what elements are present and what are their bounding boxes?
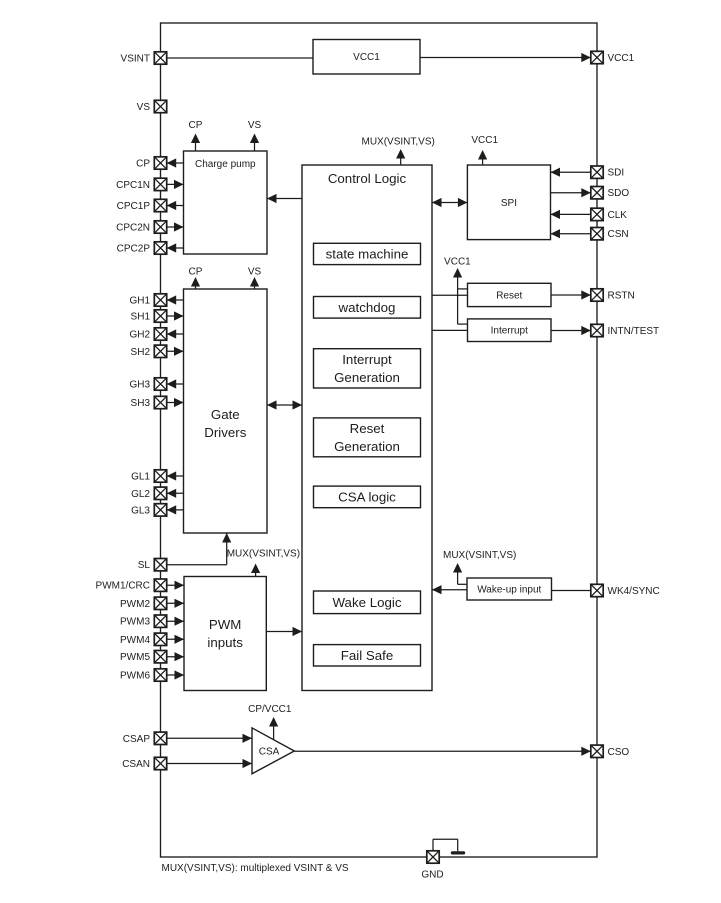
label CP/VCC1 above CSA — [248, 704, 292, 715]
svg-text:INTN/TEST: INTN/TEST — [608, 326, 660, 337]
block SPI — [467, 165, 550, 240]
svg-text:CSN: CSN — [608, 229, 629, 240]
svg-text:Reset: Reset — [496, 291, 522, 302]
pin PWM5 — [120, 651, 167, 664]
svg-text:MUX(VSINT,VS): MUX(VSINT,VS) — [443, 550, 516, 561]
svg-text:GND: GND — [421, 870, 443, 881]
wire PWM4 pin to PWM inputs — [167, 635, 184, 644]
block watchdog — [314, 297, 421, 319]
svg-text:SL: SL — [138, 560, 151, 571]
svg-text:VS: VS — [248, 120, 262, 131]
block Interrupt Generation — [314, 349, 421, 388]
wire CPC2N pin to Charge pump — [167, 222, 184, 231]
svg-text:VSINT: VSINT — [121, 54, 150, 65]
label CP above Charge pump — [189, 120, 203, 131]
svg-text:VS: VS — [137, 102, 151, 113]
svg-text:Wake-up input: Wake-up input — [477, 585, 541, 596]
pin CPC1P — [117, 199, 167, 212]
svg-text:CPC2P: CPC2P — [117, 244, 151, 255]
pin VCC1 — [591, 51, 635, 64]
wire Gate Drivers to GH2 pin — [167, 329, 184, 338]
svg-text:PWM4: PWM4 — [120, 635, 150, 646]
pin WK4/SYNC — [591, 584, 660, 597]
svg-text:CSA: CSA — [259, 746, 280, 757]
wire VCC1 rail to Reset and Interrupt blocks — [453, 268, 468, 324]
wire Interrupt block to INTN/TEST pin with arrow — [551, 326, 591, 335]
pin SL — [138, 559, 167, 572]
wire Gate Drivers to GL2 pin — [167, 489, 184, 498]
block Fail Safe — [314, 645, 421, 666]
wire SDI pin to SPI — [551, 168, 591, 177]
wire CSN pin to SPI — [551, 229, 591, 238]
arrow VS supply out of Gate Drivers — [250, 277, 259, 289]
svg-text:SH1: SH1 — [131, 312, 151, 323]
svg-text:MUX(VSINT,VS): multiplexed VSI: MUX(VSINT,VS): multiplexed VSINT & VS — [162, 863, 349, 874]
pin GL2 — [131, 487, 167, 500]
svg-text:MUX(VSINT,VS): MUX(VSINT,VS) — [362, 137, 435, 148]
pin CSAP — [123, 732, 167, 745]
svg-text:Charge pump: Charge pump — [195, 159, 256, 170]
arrow CP supply out of Charge pump — [191, 134, 200, 152]
block Gate Drivers — [184, 289, 268, 533]
svg-text:SPI: SPI — [501, 198, 517, 209]
pin GL1 — [131, 470, 167, 483]
svg-text:VCC1: VCC1 — [444, 257, 471, 268]
svg-text:Reset: Reset — [350, 421, 385, 436]
arrow MUX supply out of Wake-up input — [453, 563, 467, 584]
wire Control Logic to Charge pump with arrow — [267, 194, 302, 203]
pin GND — [421, 851, 443, 881]
pin CSN — [591, 228, 629, 241]
wire WK4/SYNC pin to Wake-up input — [552, 590, 591, 592]
wire SH1 pin to Gate Drivers — [167, 311, 184, 320]
wire Gate Drivers to GH1 pin — [167, 295, 184, 304]
label CP above Gate Drivers — [189, 267, 203, 278]
op-amp CSA (current sense amplifier) — [252, 728, 294, 774]
wire SH3 pin to Gate Drivers — [167, 398, 184, 407]
svg-text:SH2: SH2 — [131, 347, 151, 358]
pin GH1 — [129, 294, 166, 307]
pin CPC1N — [116, 178, 167, 191]
label VCC1 above SPI — [471, 135, 498, 146]
pin SH3 — [131, 396, 167, 409]
wire SH2 pin to Gate Drivers — [167, 347, 184, 356]
wire PWM3 pin to PWM inputs — [167, 617, 184, 626]
pin PWM2 — [120, 597, 167, 610]
pin VS — [137, 100, 167, 113]
pin SDI — [591, 166, 624, 179]
wire PWM1/CRC pin to PWM inputs — [167, 581, 184, 590]
svg-text:CPC1N: CPC1N — [116, 180, 150, 191]
pin CSAN — [122, 757, 166, 770]
svg-text:GL3: GL3 — [131, 505, 150, 516]
pin GH2 — [129, 328, 166, 341]
wire Reset block to RSTN pin with arrow — [551, 290, 591, 299]
wire Control Logic to Interrupt block — [432, 329, 468, 331]
label Charge pump — [195, 159, 256, 170]
svg-text:GL1: GL1 — [131, 472, 150, 483]
pin CSO — [591, 745, 630, 758]
svg-text:SDO: SDO — [608, 188, 630, 199]
wire Gate Drivers to GH3 pin — [167, 379, 184, 388]
block Reset Generation — [314, 418, 421, 457]
svg-text:CSA logic: CSA logic — [338, 490, 396, 505]
pin CPC2P — [117, 242, 167, 255]
arrow VCC1 supply out of SPI — [478, 150, 487, 165]
svg-text:Wake Logic: Wake Logic — [333, 595, 402, 610]
pin SDO — [591, 187, 630, 200]
wire CLK pin to SPI — [551, 210, 591, 219]
label VS above Charge pump — [248, 120, 262, 131]
svg-text:inputs: inputs — [207, 635, 243, 650]
wire PWM5 pin to PWM inputs — [167, 652, 184, 661]
svg-text:PWM3: PWM3 — [120, 617, 150, 628]
label MUX(VSINT,VS) above Control Logic — [362, 137, 435, 148]
svg-text:SH3: SH3 — [131, 398, 151, 409]
arrow CP/VCC1 supply out of CSA — [269, 717, 278, 740]
block Interrupt — [468, 319, 552, 342]
wire Charge pump to CP pin — [167, 158, 184, 167]
block Wake-up input — [467, 578, 552, 600]
wire Charge pump to CPC2P pin — [167, 243, 184, 252]
note MUX definition — [162, 863, 349, 874]
svg-text:PWM1/CRC: PWM1/CRC — [96, 581, 150, 592]
svg-text:CPC1P: CPC1P — [117, 201, 151, 212]
block state machine — [314, 243, 421, 264]
svg-text:WK4/SYNC: WK4/SYNC — [608, 586, 660, 597]
svg-text:CP: CP — [189, 267, 203, 278]
wire PWM6 pin to PWM inputs — [167, 670, 184, 679]
ground symbol — [451, 851, 465, 854]
pin CP — [136, 157, 167, 170]
wire SPI to SDO pin — [551, 188, 591, 197]
double arrow Gate Drivers and Control Logic — [267, 400, 302, 409]
svg-text:watchdog: watchdog — [338, 300, 396, 315]
svg-text:VCC1: VCC1 — [471, 135, 498, 146]
block PWM inputs — [184, 577, 266, 691]
wire CSAN pin to CSA with arrow — [167, 759, 252, 768]
svg-text:Interrupt: Interrupt — [491, 326, 528, 337]
arrow MUX supply out of PWM inputs — [251, 564, 260, 577]
label MUX(VSINT,VS) at Gate Drivers — [227, 549, 300, 560]
arrow VS supply out of Charge pump — [250, 134, 259, 152]
pin CPC2N — [116, 221, 167, 234]
block Control Logic — [302, 165, 432, 691]
pin PWM1/CRC — [96, 579, 167, 592]
wire CSAP pin to CSA with arrow — [167, 734, 252, 743]
svg-text:Generation: Generation — [334, 439, 400, 454]
pin PWM3 — [120, 615, 167, 628]
wire PWM2 pin to PWM inputs — [167, 599, 184, 608]
svg-text:Gate: Gate — [211, 407, 240, 422]
pin GH3 — [129, 378, 166, 391]
pin CLK — [591, 208, 627, 221]
svg-text:RSTN: RSTN — [608, 291, 635, 302]
svg-text:GL2: GL2 — [131, 489, 150, 500]
svg-text:CP/VCC1: CP/VCC1 — [248, 704, 292, 715]
wire Gate Drivers to GL1 pin — [167, 471, 184, 480]
svg-text:CSAN: CSAN — [122, 759, 150, 770]
double arrow Control Logic and SPI — [432, 198, 467, 207]
svg-text:Drivers: Drivers — [204, 425, 246, 440]
svg-text:PWM5: PWM5 — [120, 652, 150, 663]
label VS above Gate Drivers — [248, 267, 262, 278]
pin PWM6 — [120, 669, 167, 682]
svg-text:VS: VS — [248, 267, 262, 278]
pin SH1 — [131, 310, 167, 323]
svg-text:PWM6: PWM6 — [120, 671, 150, 682]
wire Gate Drivers to GL3 pin — [167, 505, 184, 514]
wire VSINT to VCC1 block — [167, 57, 313, 59]
wire PWM inputs to Control Logic with arrow — [266, 627, 302, 636]
block Charge pump — [184, 151, 268, 254]
block Wake Logic — [314, 591, 421, 614]
svg-text:VCC1: VCC1 — [608, 53, 635, 64]
svg-text:GH2: GH2 — [129, 330, 150, 341]
block VCC1 (top regulator) — [313, 40, 420, 75]
svg-text:CP: CP — [189, 120, 203, 131]
wire SL pin to Gate Drivers (MUX input) — [167, 533, 232, 565]
pin VSINT — [121, 52, 167, 65]
svg-text:PWM: PWM — [209, 617, 242, 632]
svg-text:CLK: CLK — [608, 210, 628, 221]
block CSA logic — [314, 486, 421, 508]
svg-text:CP: CP — [136, 159, 150, 170]
arrow CP supply out of Gate Drivers — [191, 277, 200, 289]
svg-text:Interrupt: Interrupt — [342, 352, 392, 367]
svg-text:GH3: GH3 — [129, 380, 150, 391]
svg-text:Generation: Generation — [334, 370, 400, 385]
wire Charge pump to CPC1P pin — [167, 201, 184, 210]
pin PWM4 — [120, 633, 167, 646]
wire GND pin to ground symbol — [433, 839, 458, 851]
svg-text:SDI: SDI — [608, 168, 625, 179]
pin GL3 — [131, 504, 167, 517]
svg-text:Fail Safe: Fail Safe — [341, 648, 393, 663]
wire Control Logic to Reset block — [432, 294, 468, 296]
pin SH2 — [131, 345, 167, 358]
pin INTN/TEST — [591, 324, 659, 337]
svg-text:MUX(VSINT,VS): MUX(VSINT,VS) — [227, 549, 300, 560]
pin RSTN — [591, 289, 635, 302]
chip outline (IC boundary, doubles as pin rail wires) — [161, 23, 598, 857]
wire CPC1N pin to Charge pump — [167, 180, 184, 189]
svg-text:VCC1: VCC1 — [353, 52, 380, 63]
svg-text:state machine: state machine — [326, 247, 409, 262]
svg-text:GH1: GH1 — [129, 296, 150, 307]
svg-text:CPC2N: CPC2N — [116, 223, 150, 234]
svg-text:CSAP: CSAP — [123, 734, 151, 745]
svg-text:CSO: CSO — [608, 747, 630, 758]
svg-text:PWM2: PWM2 — [120, 599, 150, 610]
wire Wake-up input to Control Logic with arrow — [432, 585, 467, 594]
block Reset — [468, 283, 552, 306]
wire VCC1 block to VCC1 pin with arrow — [420, 53, 591, 62]
label MUX(VSINT,VS) above Wake-up input — [443, 550, 516, 561]
wire CSA output to CSO pin with arrow — [294, 747, 591, 756]
arrow MUX(VSINT,VS) out of Control Logic — [396, 149, 405, 165]
label VCC1 above Reset block rail — [444, 257, 471, 268]
svg-text:Control Logic: Control Logic — [328, 171, 407, 186]
